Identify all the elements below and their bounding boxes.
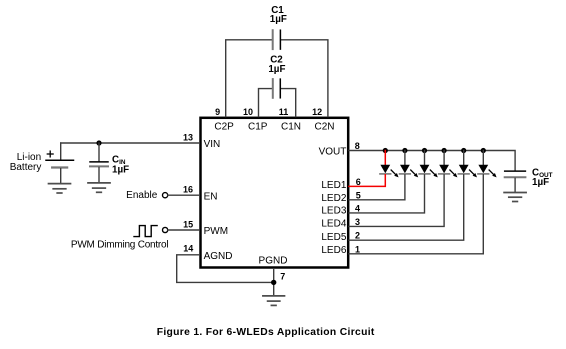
wire pin 9 to C1	[226, 40, 272, 117]
svg-text:4: 4	[355, 203, 360, 213]
wire LED1 cathode return (red)	[349, 175, 385, 187]
svg-text:C1P: C1P	[248, 122, 268, 133]
svg-text:11: 11	[279, 107, 289, 117]
svg-text:15: 15	[183, 219, 193, 229]
svg-text:16: 16	[183, 185, 193, 195]
ground (battery)	[49, 184, 71, 193]
capacitor C2	[273, 79, 281, 98]
svg-text:5: 5	[356, 190, 361, 200]
junction node LED D3 anode	[422, 148, 427, 153]
label COUT	[532, 167, 553, 188]
IC U1	[201, 118, 349, 268]
battery BT1	[46, 143, 74, 183]
terminal PWM	[163, 227, 168, 232]
svg-text:13: 13	[183, 133, 193, 143]
svg-text:C1N: C1N	[281, 122, 301, 133]
svg-text:VIN: VIN	[204, 139, 221, 150]
svg-text:LED1: LED1	[321, 180, 346, 191]
wire LED2 cathode return	[349, 175, 405, 200]
junction node LED D1 anode	[383, 148, 388, 153]
wire VOUT rail	[349, 151, 515, 171]
LED D3	[419, 151, 438, 178]
svg-text:PWM: PWM	[204, 226, 228, 237]
svg-text:VOUT: VOUT	[319, 146, 347, 157]
svg-text:Figure 1. For 6-WLEDs Applicat: Figure 1. For 6-WLEDs Application Circui…	[157, 327, 375, 338]
wire LED3 cathode return	[349, 175, 425, 213]
svg-text:1µF: 1µF	[532, 177, 549, 188]
wire AGND to ground node	[177, 255, 273, 283]
capacitor CIN	[90, 143, 108, 182]
wire pin 12 to C1	[281, 40, 328, 117]
svg-text:AGND: AGND	[204, 251, 233, 262]
svg-text:9: 9	[215, 107, 220, 117]
svg-text:1: 1	[355, 244, 360, 254]
svg-text:Enable: Enable	[126, 190, 158, 201]
wire LED4 cathode return	[349, 175, 444, 227]
LED D6	[478, 151, 497, 178]
svg-text:1µF: 1µF	[270, 14, 287, 25]
svg-text:1µF: 1µF	[268, 64, 285, 75]
svg-text:8: 8	[355, 141, 360, 151]
svg-text:Battery: Battery	[10, 162, 42, 173]
terminal Enable	[163, 193, 168, 198]
label CIN	[112, 154, 129, 175]
capacitor C1	[273, 30, 281, 49]
svg-text:10: 10	[243, 107, 253, 117]
battery plus sign	[47, 151, 53, 157]
PWM waveform symbol	[134, 226, 157, 237]
junction node LED D4 anode	[442, 148, 447, 153]
svg-text:LED2: LED2	[321, 193, 346, 204]
LED D1	[380, 151, 399, 178]
ground (CIN)	[88, 183, 110, 192]
LED D4	[439, 151, 458, 178]
svg-text:6: 6	[356, 177, 361, 187]
wire pin 11 to C2	[281, 89, 296, 117]
wire LED5 cathode return	[349, 175, 464, 240]
wire pin 10 to C2	[259, 89, 273, 117]
svg-text:PGND: PGND	[259, 256, 288, 267]
svg-text:C2P: C2P	[214, 122, 234, 133]
ground (COUT)	[504, 193, 526, 202]
svg-text:EN: EN	[204, 191, 218, 202]
svg-text:C2N: C2N	[314, 122, 334, 133]
junction node LED D2 anode	[402, 148, 407, 153]
label Li-ion Battery	[10, 152, 42, 173]
svg-text:12: 12	[312, 107, 322, 117]
svg-text:3: 3	[355, 217, 360, 227]
junction node LED D5 anode	[461, 148, 466, 153]
svg-text:7: 7	[280, 271, 285, 281]
wire LED6 cathode return	[349, 175, 483, 254]
svg-text:14: 14	[183, 243, 193, 253]
LED D2	[400, 151, 419, 178]
svg-text:1µF: 1µF	[112, 165, 129, 176]
ground (PGND)	[263, 296, 285, 306]
junction node VIN/CIN	[96, 140, 101, 145]
svg-text:LED3: LED3	[321, 205, 346, 216]
wire EN	[168, 194, 199, 196]
wire VIN	[61, 142, 200, 144]
LED D5	[458, 151, 477, 178]
svg-text:LED5: LED5	[321, 232, 346, 243]
junction node pin 7	[271, 280, 276, 285]
wire pin 7 PGND	[273, 269, 275, 296]
svg-text:LED6: LED6	[321, 245, 346, 256]
svg-text:PWM Dimming Control: PWM Dimming Control	[71, 239, 168, 250]
capacitor COUT	[505, 171, 526, 192]
svg-text:2: 2	[355, 231, 360, 241]
wire PWM	[168, 229, 199, 231]
svg-text:LED4: LED4	[321, 218, 346, 229]
junction node LED D6 anode	[481, 148, 486, 153]
